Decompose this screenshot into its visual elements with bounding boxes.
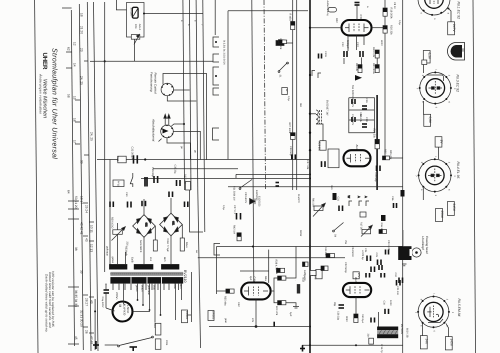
resistor R21 bbox=[375, 65, 379, 73]
svg-text:2µF: 2µF bbox=[249, 276, 252, 281]
svg-text:R a/170: R a/170 bbox=[297, 194, 300, 203]
connector bracket Bu3 bbox=[213, 67, 219, 85]
caps network wires bbox=[349, 98, 375, 133]
capacitor C34 bbox=[385, 309, 389, 314]
capacitor C29 bbox=[154, 176, 158, 183]
svg-text:R26 50k: R26 50k bbox=[373, 129, 376, 139]
svg-text:R24 3k: R24 3k bbox=[359, 114, 362, 123]
connector pin dot Bu3 bbox=[215, 75, 217, 77]
ground symbol bottom bbox=[130, 347, 138, 351]
svg-text:220V~: 220V~ bbox=[115, 292, 119, 301]
tube socket Ro4 outer circle bbox=[418, 297, 449, 328]
capacitor C28 bbox=[169, 192, 173, 198]
wire remote tube bottom bbox=[167, 96, 196, 101]
svg-text:C15 400V: C15 400V bbox=[351, 96, 354, 107]
wire Ro2 up bbox=[423, 65, 425, 74]
svg-text:36 35 34 33: 36 35 34 33 bbox=[74, 290, 78, 307]
svg-text:Fernsteuerung: Fernsteuerung bbox=[150, 72, 154, 92]
main bus y159.5 bbox=[97, 159, 310, 161]
wire horizontal bus y61.3 bbox=[94, 60, 213, 62]
wire under T1 c bbox=[361, 58, 363, 65]
capacitor C38 bbox=[292, 154, 296, 159]
trimmer R29 bbox=[112, 223, 126, 241]
svg-text:R23 2k: R23 2k bbox=[355, 63, 358, 72]
resistor R19 bbox=[375, 50, 379, 58]
svg-text:Änderungen vorbehalten: Änderungen vorbehalten bbox=[39, 73, 43, 114]
resistor R16 bbox=[379, 230, 387, 234]
svg-text:64: 64 bbox=[67, 190, 71, 194]
svg-text:R17 2k: R17 2k bbox=[360, 222, 363, 230]
svg-text:C16: C16 bbox=[365, 98, 368, 103]
tube socket Ro2 corner notch bbox=[427, 75, 444, 81]
svg-text:14: 14 bbox=[73, 63, 77, 67]
wire bridge Gl1 right corner down bbox=[181, 225, 183, 239]
tube socket Ro3 pins bbox=[418, 158, 452, 192]
svg-text:58: 58 bbox=[67, 94, 71, 98]
voltage box 250V bbox=[436, 209, 444, 222]
capacitor C103 bbox=[319, 54, 322, 59]
wire T1 drop a bbox=[347, 35, 349, 51]
wire T1 grid top bbox=[356, 5, 358, 20]
tube socket Ro4 notch bbox=[428, 319, 443, 323]
resistor R30b boxed bbox=[186, 182, 191, 191]
svg-text:R44A: R44A bbox=[153, 322, 156, 328]
svg-text:C10: C10 bbox=[341, 42, 344, 47]
box 31n bbox=[369, 338, 374, 344]
wire vertical bus x104.7 bbox=[104, 2, 106, 272]
fuse vertical ro-blau bbox=[297, 284, 300, 293]
terminal tick marks bbox=[62, 8, 94, 344]
sprinkle labels wires column bbox=[180, 20, 203, 253]
contact stub A2 bbox=[364, 196, 369, 206]
erase head dot bbox=[415, 251, 418, 254]
bus pair y178.4 bbox=[141, 177, 310, 179]
svg-text:R25 47k: R25 47k bbox=[389, 150, 392, 160]
autostop photo arrow bbox=[163, 129, 169, 134]
svg-text:12 13: 12 13 bbox=[90, 244, 94, 252]
svg-text:50,51 20: 50,51 20 bbox=[74, 196, 78, 209]
wire vertical x292.7 bbox=[292, 0, 294, 190]
wires T3 connections bbox=[255, 247, 296, 328]
svg-text:600V 3B: 600V 3B bbox=[406, 328, 409, 338]
svg-text:5x04 5RF9: 5x04 5RF9 bbox=[139, 240, 142, 253]
svg-text:0,1µ: 0,1µ bbox=[287, 96, 290, 101]
capacitor C21 bbox=[339, 206, 343, 212]
svg-text:0,1µ: 0,1µ bbox=[222, 205, 225, 210]
fuse diagonal bbox=[133, 9, 138, 17]
svg-text:R29 100Ω: R29 100Ω bbox=[111, 217, 114, 228]
wire fuse feed bbox=[116, 0, 126, 10]
resistor box below Gl1 bbox=[180, 238, 184, 251]
svg-text:250V: 250V bbox=[440, 211, 444, 219]
wire T3 anode feed bbox=[268, 250, 270, 283]
svg-text:R22: R22 bbox=[335, 18, 338, 23]
wire osc coil up bbox=[378, 312, 380, 327]
resistor R35 bbox=[226, 289, 234, 293]
resistor R14 dark bbox=[381, 215, 386, 221]
voltage box 245V bbox=[448, 202, 456, 216]
cable harness line 3 bbox=[87, 2, 91, 351]
svg-text:BV2110: BV2110 bbox=[183, 270, 187, 283]
resistor R28 boxed bbox=[320, 141, 326, 151]
capacitor C40 motor bbox=[104, 290, 110, 293]
svg-text:5000pF: 5000pF bbox=[346, 40, 349, 49]
svg-text:F04: F04 bbox=[134, 24, 137, 29]
triode tube T2 stadium bbox=[344, 150, 371, 166]
node dot autostop grid bbox=[183, 123, 185, 125]
svg-text:2x1: 2x1 bbox=[149, 257, 152, 262]
remote control tube circle bbox=[161, 83, 173, 95]
svg-text:39: 39 bbox=[80, 270, 84, 274]
resistor R20 bbox=[383, 26, 387, 33]
svg-text:C12: C12 bbox=[394, 273, 397, 278]
svg-text:24, 25: 24, 25 bbox=[80, 76, 84, 85]
svg-text:R31: R31 bbox=[116, 157, 119, 162]
svg-text:C7b: C7b bbox=[359, 15, 363, 21]
wire T3 grid feed vertical bbox=[216, 247, 218, 289]
svg-text:6,3V: 6,3V bbox=[428, 53, 432, 60]
cable harness line 1 bbox=[71, 10, 74, 346]
trimmer R17 bbox=[361, 225, 372, 236]
tube socket Ro3 electrodes bbox=[428, 169, 442, 183]
svg-text:R41 1M: R41 1M bbox=[312, 198, 315, 207]
wire Ro4 left down bbox=[422, 324, 424, 336]
capacitor C23 bbox=[378, 260, 382, 266]
svg-text:C20 50µ: C20 50µ bbox=[374, 173, 377, 183]
sprinkle labels mid bbox=[222, 190, 390, 273]
triode tube T4 stadium bbox=[343, 283, 371, 297]
svg-text:R32/gelb: R32/gelb bbox=[125, 246, 128, 257]
svg-text:Rö.1 EC 92: Rö.1 EC 92 bbox=[457, 2, 461, 20]
autostop tube pins bbox=[161, 125, 173, 138]
B+ bold bus x310 bbox=[309, 0, 311, 353]
wire autostop anode bbox=[173, 131, 200, 159]
resistor R13 bbox=[326, 254, 335, 258]
svg-text:21 20: 21 20 bbox=[80, 26, 84, 34]
svg-text:R35 44a: R35 44a bbox=[224, 296, 227, 306]
voltage box 0.8V bbox=[424, 114, 432, 126]
svg-text:Remote Control: Remote Control bbox=[153, 73, 157, 94]
wire Ro4 right down bbox=[446, 324, 449, 337]
wire R25 to right edge bbox=[390, 157, 403, 159]
svg-text:M: M bbox=[118, 305, 122, 308]
svg-text:C27 0,1: C27 0,1 bbox=[233, 205, 236, 214]
wire motor left vertical bbox=[94, 299, 96, 350]
svg-text:UHER: UHER bbox=[41, 53, 48, 70]
bottom mid bus y326.5 bbox=[209, 326, 310, 328]
svg-text:18: 18 bbox=[80, 13, 84, 17]
wire Ro3 down bbox=[422, 188, 424, 200]
svg-text:AU2: AU2 bbox=[355, 145, 359, 151]
erase head gap bbox=[410, 249, 413, 256]
svg-text:C21 10n: C21 10n bbox=[396, 286, 399, 296]
transformer core laminations bbox=[110, 272, 183, 276]
caps cluster labels bbox=[364, 248, 378, 258]
capacitor C37 bbox=[322, 161, 326, 167]
wire motor leads bbox=[106, 284, 124, 311]
svg-text:Rö.5 EM 84: Rö.5 EM 84 bbox=[457, 299, 461, 317]
tube socket Ro1 pins bbox=[423, 8, 450, 16]
capacitor C35 bbox=[177, 180, 181, 186]
svg-text:2,5µ 320V: 2,5µ 320V bbox=[101, 297, 104, 308]
svg-text:R13 1M: R13 1M bbox=[324, 247, 327, 255]
wire vertical x110 down to transformer bbox=[109, 160, 111, 267]
svg-text:R a/16: R a/16 bbox=[289, 14, 292, 22]
svg-text:R25: R25 bbox=[384, 149, 387, 154]
node dot x252 y246.5 bbox=[252, 246, 254, 248]
capacitor C27 bbox=[237, 213, 241, 220]
svg-text:Rö.3 EC 92: Rö.3 EC 92 bbox=[456, 75, 460, 93]
wire erase head feed bbox=[402, 230, 404, 246]
svg-text:Abschaltautomat: Abschaltautomat bbox=[152, 118, 156, 142]
capacitor C32 bbox=[134, 155, 138, 163]
relay box DR5E1 b bbox=[208, 311, 214, 321]
tube socket Ro3 outer circle bbox=[419, 159, 451, 191]
fuse assembly outer box bbox=[127, 3, 145, 38]
voltage box 247V bbox=[448, 22, 456, 35]
tube socket Ro2 electrodes bbox=[429, 81, 443, 95]
terminal numbers column a bbox=[67, 13, 94, 164]
svg-text:R18 300k: R18 300k bbox=[390, 8, 393, 20]
svg-text:ge/ws: ge/ws bbox=[111, 257, 114, 264]
triode tube T1 stadium bbox=[342, 20, 372, 35]
wire autostop grid bbox=[172, 124, 185, 126]
wire block A right feed bbox=[125, 252, 127, 264]
capacitor C26 vertical bbox=[339, 305, 345, 308]
oscillator coil block top bar bbox=[377, 327, 398, 331]
contact stub A1 bbox=[357, 196, 362, 206]
tube socket Ro2 outer circle bbox=[420, 72, 451, 103]
svg-text:R38 4,7k: R38 4,7k bbox=[275, 260, 278, 271]
wire to relay box bbox=[188, 314, 192, 316]
resistor box below Gl2 bbox=[153, 240, 157, 251]
svg-text:St 3,5/1 Bu 3,5/1 St 5/4: St 3,5/1 Bu 3,5/1 St 5/4 bbox=[223, 40, 226, 65]
T4 electrodes bbox=[346, 286, 370, 294]
svg-text:R27 500k: R27 500k bbox=[288, 123, 291, 134]
small box left of T2 bbox=[328, 149, 339, 168]
pin number labels Ro2 bbox=[416, 69, 457, 109]
capacitor C8 top stub bbox=[355, 3, 360, 6]
svg-text:C36: C36 bbox=[391, 196, 394, 201]
connector bracket low right bbox=[214, 244, 220, 256]
wire vertical x215 stub bbox=[214, 0, 216, 35]
svg-text:C4b: C4b bbox=[253, 277, 257, 283]
oscillator coil hatch bbox=[379, 330, 398, 334]
tube socket Ro2 inner circle bbox=[426, 79, 445, 98]
tube socket Ro3 inner circle bbox=[426, 166, 445, 185]
connector bracket mid right bbox=[213, 128, 220, 140]
svg-text:BV-N005: BV-N005 bbox=[400, 324, 403, 335]
svg-text:R30 1µ4: R30 1µ4 bbox=[361, 314, 364, 324]
svg-text:A: A bbox=[364, 196, 367, 198]
svg-text:Erasing head: Erasing head bbox=[425, 236, 429, 254]
wire mid horizontal y168.8 bbox=[153, 168, 238, 170]
wire 1V box down bbox=[438, 147, 440, 159]
node motor left junction bbox=[94, 310, 96, 312]
wire labels above transformer bbox=[111, 257, 166, 264]
capacitor C20 bbox=[377, 166, 381, 172]
svg-text:62: 62 bbox=[67, 47, 71, 51]
wire top bus y10.7 bbox=[228, 10, 308, 12]
wire regulator down to bus bbox=[133, 39, 135, 61]
svg-text:K00 47k: K00 47k bbox=[275, 306, 278, 316]
wire choke branch bbox=[316, 124, 323, 141]
caps network labels bbox=[350, 99, 362, 122]
terminal dots under transformer bbox=[137, 299, 162, 316]
node dots bottom bus bbox=[309, 344, 357, 346]
svg-text:245V: 245V bbox=[452, 204, 456, 212]
svg-text:A: A bbox=[357, 196, 360, 198]
svg-text:C24 5000: C24 5000 bbox=[351, 246, 354, 257]
connector tick on mid bus bbox=[273, 322, 275, 327]
trimmer R41 bbox=[313, 203, 325, 216]
oscillator coil bottom bar bbox=[377, 334, 398, 338]
connector bracket Bu4 bbox=[213, 88, 219, 95]
svg-text:34V: 34V bbox=[425, 339, 429, 346]
svg-text:AL2: AL2 bbox=[354, 277, 358, 282]
capacitor on bus pair bbox=[276, 183, 280, 187]
svg-text:R28 600: R28 600 bbox=[318, 142, 321, 152]
node junction x310 y113.8 bbox=[309, 113, 311, 115]
resistor R37 bbox=[278, 301, 286, 305]
svg-text:C34: C34 bbox=[383, 301, 386, 306]
capacitor C20b bbox=[386, 250, 389, 255]
svg-text:E125C50: E125C50 bbox=[255, 190, 258, 201]
wire bridge Gl2 to transformer bbox=[143, 237, 145, 264]
svg-text:1000: 1000 bbox=[389, 300, 392, 306]
svg-text:16: 16 bbox=[73, 118, 77, 122]
svg-text:BV20167 1W: BV20167 1W bbox=[326, 100, 329, 116]
wire fuse out bbox=[144, 13, 203, 15]
tube socket Ro4 pins bbox=[417, 296, 450, 329]
resistor R26 dark bbox=[375, 139, 379, 148]
tube socket Ro1 outer circle bbox=[418, 0, 450, 15]
tube socket Ro4 inner circle bold bbox=[424, 302, 443, 321]
wire T1 left lead bbox=[310, 27, 342, 29]
wire stub row under transformer bbox=[113, 284, 179, 290]
svg-text:48 42 41: 48 42 41 bbox=[80, 222, 84, 235]
rotary switch bottom row2 bbox=[236, 174, 252, 189]
switch S1 bbox=[278, 62, 288, 72]
wire autostop left stub bbox=[159, 139, 162, 142]
wire T1 drop b bbox=[363, 35, 365, 45]
svg-text:Löschkopf: Löschkopf bbox=[421, 236, 425, 251]
capacitor C13 bbox=[360, 51, 363, 57]
wire bridge Gl2 right corner down bbox=[154, 226, 156, 240]
wire T1 anode to R20 bbox=[372, 27, 386, 29]
svg-text:C35 30µ: C35 30µ bbox=[174, 165, 177, 175]
wire vertical x296.7 bbox=[296, 0, 298, 190]
wire vertical x203 bbox=[203, 0, 205, 232]
svg-text:C20 0,25: C20 0,25 bbox=[387, 240, 390, 251]
svg-text:MΩ: MΩ bbox=[299, 103, 302, 107]
capacitor C24 bbox=[367, 256, 371, 262]
bridge rectifier Gl2 bbox=[133, 215, 156, 238]
transformer bar separators bbox=[131, 277, 162, 284]
autostop tube circle bbox=[161, 125, 174, 138]
svg-text:C13: C13 bbox=[356, 42, 359, 47]
triode tube T3 stadium bbox=[241, 283, 270, 300]
capacitor C12 bbox=[397, 280, 401, 286]
regulator resistor bottom bbox=[131, 35, 140, 40]
capacitor C21b lower bbox=[399, 278, 403, 284]
resistor R38 bbox=[277, 268, 285, 272]
wire choke to bus bbox=[310, 113, 316, 115]
svg-text:bl/ws: bl/ws bbox=[185, 242, 188, 248]
coupling caps network C17 bbox=[352, 117, 355, 122]
page right border bbox=[473, 0, 476, 353]
svg-text:Ea/B: Ea/B bbox=[131, 257, 134, 263]
wire vertical x183 bbox=[183, 0, 185, 190]
resistor R36 bbox=[278, 276, 286, 280]
svg-text:32 31 30 29: 32 31 30 29 bbox=[80, 310, 84, 327]
bus y186.7 bbox=[228, 186, 403, 188]
svg-text:17: 17 bbox=[73, 140, 77, 144]
svg-text:R31 500k 1W: R31 500k 1W bbox=[233, 186, 236, 201]
wire bridge Gl2 top bbox=[143, 199, 145, 215]
capacitor C14 bbox=[371, 318, 375, 323]
svg-text:C29 80µ: C29 80µ bbox=[151, 167, 154, 177]
transformer core stripe bbox=[110, 273, 183, 275]
svg-text:C37 12k: C37 12k bbox=[306, 160, 309, 170]
T3 electrodes bbox=[244, 287, 268, 296]
svg-text:C33 400V: C33 400V bbox=[244, 192, 247, 203]
resistor R27 bbox=[291, 133, 296, 140]
bus y257.8 bbox=[198, 257, 345, 259]
resistor R25 horizontal bbox=[383, 156, 390, 160]
wire T1 cathode down bbox=[356, 35, 358, 50]
svg-text:Ton 5000: Ton 5000 bbox=[351, 85, 354, 96]
svg-text:ge/braun: ge/braun bbox=[106, 246, 109, 256]
svg-text:C21: C21 bbox=[337, 197, 340, 202]
svg-text:25 24: 25 24 bbox=[85, 205, 89, 213]
wire remote tube right b bbox=[174, 89, 190, 91]
svg-text:220k: 220k bbox=[165, 340, 168, 346]
coupling caps network C18 bbox=[362, 124, 367, 127]
wire vertical x228 bbox=[227, 11, 229, 160]
resistor R40 dark bbox=[333, 193, 337, 200]
switch S below bus bbox=[130, 173, 133, 187]
pin number labels Ro3 bbox=[414, 156, 456, 197]
svg-text:0,1µ: 0,1µ bbox=[398, 20, 401, 25]
wire x191 down bbox=[190, 272, 192, 322]
tube socket Ro1 inner circle bbox=[425, 0, 444, 8]
cable harness line 4 bbox=[94, 2, 99, 351]
svg-text:C32 300µF: C32 300µF bbox=[131, 147, 134, 160]
node dot x310 y27.7 bbox=[309, 27, 311, 29]
node junction bus y159.5 bbox=[144, 158, 146, 160]
svg-text:C38 50µ: C38 50µ bbox=[289, 146, 292, 156]
resistor R33 shaded bbox=[144, 177, 148, 187]
resistor R12 bbox=[321, 266, 328, 271]
pin number labels Ro1 bbox=[419, 13, 449, 21]
svg-text:U: U bbox=[460, 49, 465, 52]
capacitor C19b bbox=[313, 271, 316, 276]
svg-text:10 11: 10 11 bbox=[90, 225, 94, 233]
wire vertical x189.6 bbox=[189, 0, 191, 190]
connector bracket Bu1 bbox=[213, 37, 219, 47]
svg-text:18 17: 18 17 bbox=[80, 196, 84, 204]
chassis dash-dot boundary bbox=[264, 0, 266, 190]
capacitor C10 bbox=[344, 51, 347, 57]
svg-text:C23: C23 bbox=[375, 253, 378, 258]
svg-text:Si 0,8A: Si 0,8A bbox=[130, 8, 133, 16]
switch box S1b bbox=[310, 271, 316, 276]
pin number labels Ro4 bbox=[414, 293, 454, 332]
svg-text:RΩW: RΩW bbox=[299, 230, 302, 237]
diode E125C50 bbox=[250, 199, 255, 205]
svg-text:15: 15 bbox=[73, 96, 77, 100]
